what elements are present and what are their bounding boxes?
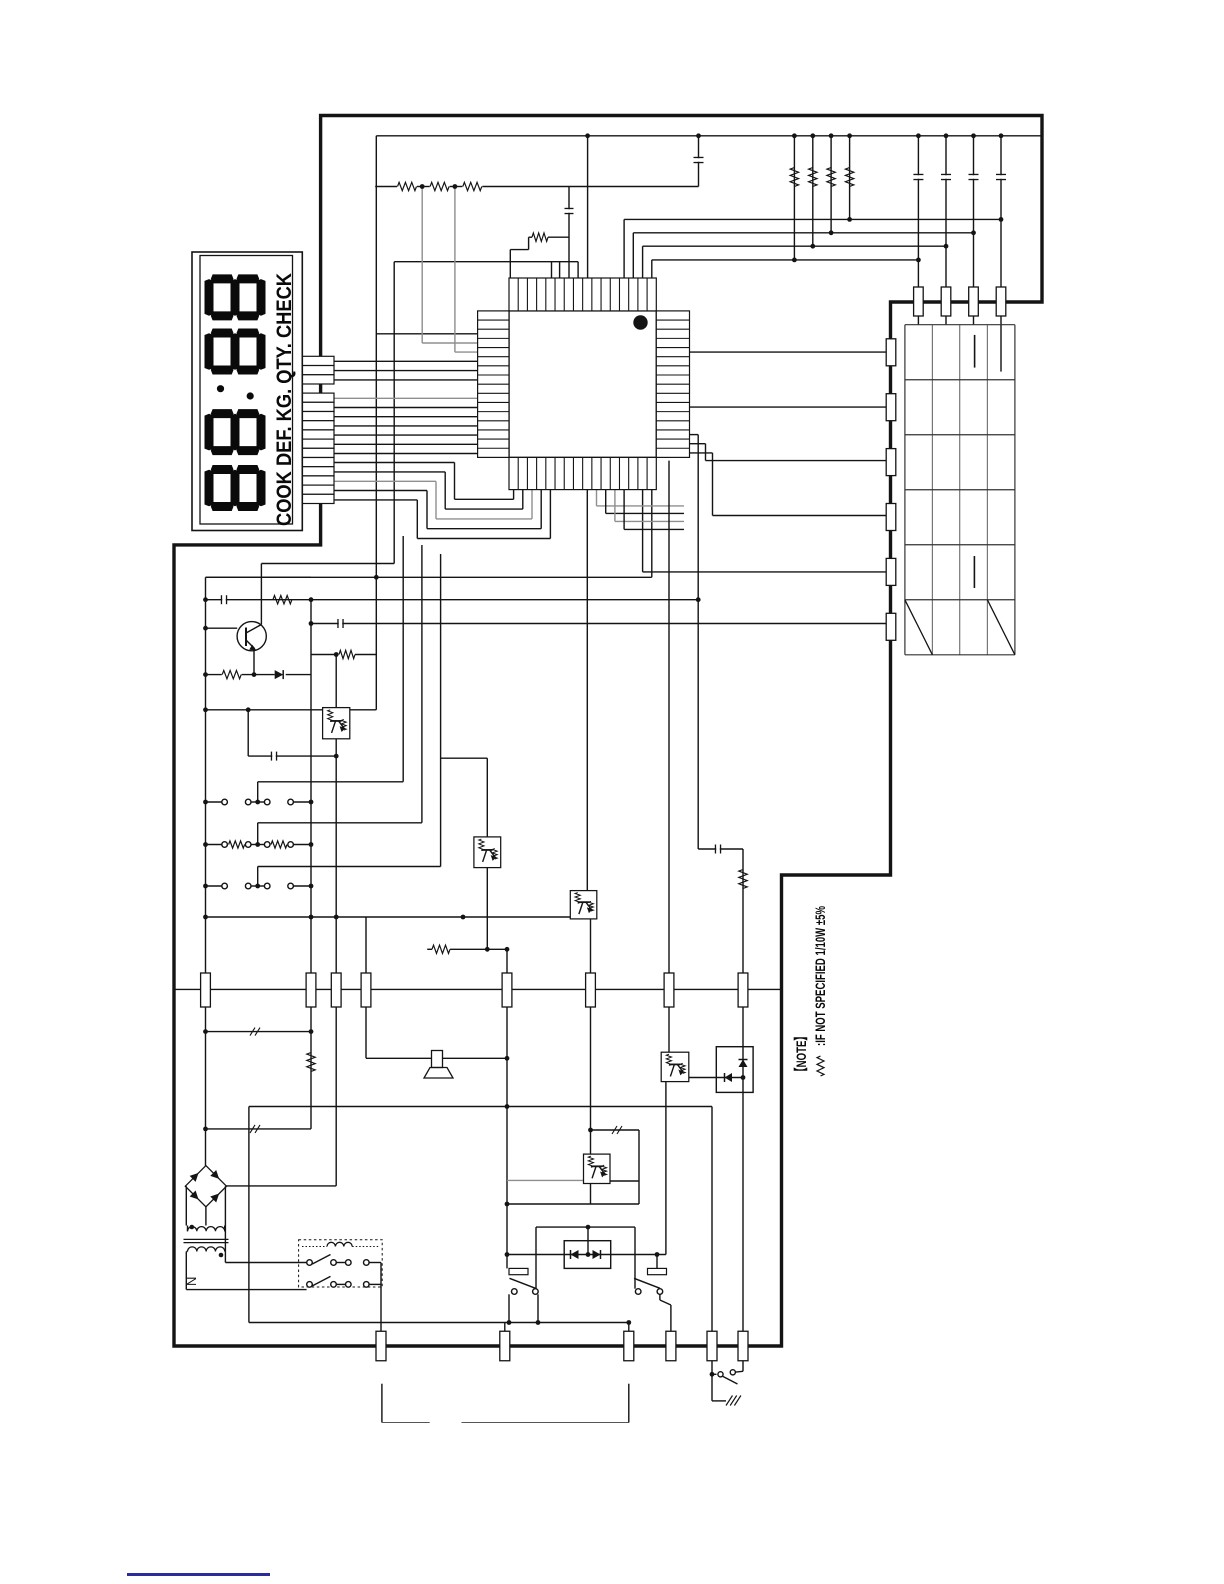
svg-text:N: N: [184, 1277, 199, 1286]
svg-text::IF NOT SPECIFIED 1/10W ±5%: :IF NOT SPECIFIED 1/10W ±5%: [813, 906, 828, 1046]
svg-text:【NOTE】: 【NOTE】: [793, 1031, 809, 1077]
svg-text:COOK DEF. KG. QTY. CHECK: COOK DEF. KG. QTY. CHECK: [272, 273, 296, 526]
